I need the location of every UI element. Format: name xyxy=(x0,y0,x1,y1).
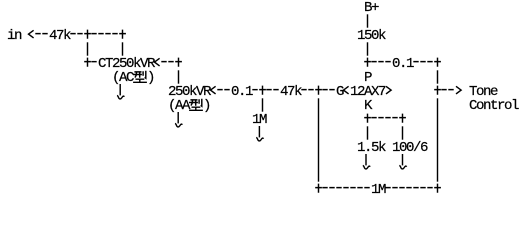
bottom right junction xyxy=(434,184,441,193)
wire to 100/6 xyxy=(402,126,404,139)
tube grid bracket right xyxy=(386,86,391,94)
label close paren AC xyxy=(147,71,154,85)
potentiometer CT250kVR label xyxy=(98,57,154,71)
wire cap to grid node xyxy=(252,89,257,91)
wire node A down xyxy=(87,42,89,55)
CJK xing glyph of AA label xyxy=(189,99,203,111)
wire 47k to node A xyxy=(70,33,82,35)
tube V1 12AX7 label xyxy=(350,85,385,99)
wire to 47k grid stopper xyxy=(266,89,278,91)
wire node B down xyxy=(122,42,124,55)
pin P plate of tube xyxy=(364,71,371,85)
wire grid-leak down xyxy=(262,98,264,111)
resistor 47k grid stopper xyxy=(280,85,301,99)
left rail top junction xyxy=(315,86,322,95)
wire 47k to left rail xyxy=(301,89,313,91)
wire wiper to cap 0.1 xyxy=(217,89,229,91)
resistor 1M to tone control xyxy=(371,183,385,197)
arrow into input xyxy=(29,30,34,38)
output junction right rail xyxy=(434,86,441,95)
label Control xyxy=(469,99,518,113)
node A junction xyxy=(84,30,91,39)
ground below 1M grid leak xyxy=(258,126,260,137)
cathode junction right xyxy=(399,114,406,123)
arrow to tone control xyxy=(456,86,461,94)
capacitor 100/6 cathode bypass xyxy=(392,141,427,155)
ground below 100/6 xyxy=(402,154,404,165)
wire from B+ down xyxy=(367,14,369,27)
capacitor 0.1 coupling xyxy=(231,85,252,99)
wire node B leg down xyxy=(178,70,180,83)
node B+ supply xyxy=(364,1,378,15)
label (AC type) of CT pot xyxy=(112,71,133,85)
wire in to 47k xyxy=(35,33,47,35)
wire CT pot wiper xyxy=(161,61,173,63)
junction at node A leg xyxy=(84,58,91,67)
CJK xing glyph of AC label xyxy=(133,71,147,83)
resistor 1.5k cathode xyxy=(357,141,385,155)
wire to output arrow xyxy=(441,89,453,91)
wire bottom right xyxy=(385,187,432,189)
plate node junction xyxy=(364,58,371,67)
potentiometer 250kVR volume xyxy=(168,85,210,99)
wire cap 0.1 to right rail xyxy=(413,61,432,63)
junction CT pot to node B leg xyxy=(175,58,182,67)
resistor 47k input series xyxy=(49,29,70,43)
grid-leak junction xyxy=(259,86,266,95)
ground below 1.5k xyxy=(365,154,367,165)
arrow wiper 250kVR xyxy=(211,86,216,94)
wire node A to node B xyxy=(91,33,117,35)
junction right rail top xyxy=(434,58,441,67)
wire to CT pot xyxy=(91,61,96,63)
arrow wiper CT pot xyxy=(155,58,160,66)
node B junction xyxy=(119,30,126,39)
capacitor 0.1 plate coupling xyxy=(392,57,413,71)
tube V1 G pin xyxy=(336,85,343,99)
left rail wire xyxy=(318,98,320,181)
wire bottom left xyxy=(322,187,369,189)
pin K cathode of tube xyxy=(364,99,371,113)
tube grid bracket left xyxy=(344,86,349,94)
node in (input) xyxy=(7,29,21,43)
bottom left junction xyxy=(315,184,322,193)
label Tone xyxy=(469,85,497,99)
wire 150k to plate node xyxy=(367,42,369,55)
wire plate to cap 0.1 xyxy=(371,61,390,63)
wire to 1.5k xyxy=(367,126,369,139)
ground below CT pot xyxy=(119,84,121,95)
wire rail to grid pin xyxy=(322,89,334,91)
wire cathode network xyxy=(371,117,397,119)
resistor 150k plate load xyxy=(357,29,385,43)
cathode junction left xyxy=(364,114,371,123)
resistor 1M grid leak xyxy=(252,113,266,127)
ground below 250kVR pot xyxy=(177,112,179,123)
label (AA type) of 250kVR pot xyxy=(168,99,189,113)
label close paren AA xyxy=(203,99,210,113)
right rail wire xyxy=(437,98,439,181)
right rail segment xyxy=(437,70,439,83)
